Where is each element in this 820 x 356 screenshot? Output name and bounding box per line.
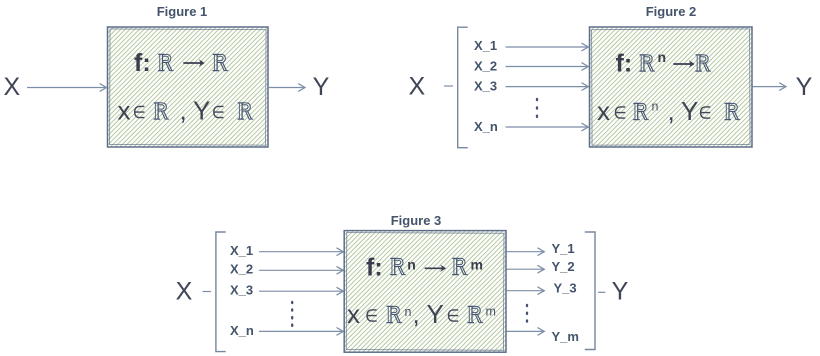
svg-text:X_1: X_1: [474, 38, 497, 53]
svg-text:n: n: [407, 256, 416, 272]
svg-text:m: m: [471, 256, 483, 272]
svg-text:X_n: X_n: [474, 119, 498, 134]
wire X_2 to box (fig3): [259, 266, 343, 274]
function box F2: [590, 27, 753, 147]
svg-text:f:: f:: [616, 50, 633, 78]
wire X_n to box (fig2): [506, 123, 589, 131]
svg-text:x: x: [597, 96, 610, 126]
svg-text:X_2: X_2: [474, 58, 497, 73]
svg-text:X_1: X_1: [230, 243, 253, 258]
F1 formula: x in R , Y in R: [118, 96, 254, 126]
function box F1: [108, 27, 269, 147]
F2 formula: f: R^n -> R: [616, 49, 712, 78]
wire X_1 to box (fig3): [259, 248, 343, 256]
wire X_3 to box (fig2): [506, 83, 589, 91]
vertical ellipsis (fig3 outputs): [526, 304, 528, 323]
svg-text:,: ,: [413, 299, 420, 329]
vertical ellipsis (fig3 inputs): [291, 301, 293, 327]
svg-text:X_3: X_3: [230, 283, 253, 298]
svg-text:X_n: X_n: [230, 323, 254, 338]
wire box to Y_m (fig3): [507, 328, 545, 336]
svg-text:X_2: X_2: [230, 262, 253, 277]
svg-text:Y: Y: [612, 278, 629, 306]
svg-text:,: ,: [180, 96, 187, 126]
svg-text:Figure 2: Figure 2: [646, 4, 697, 19]
svg-text:f:: f:: [366, 254, 383, 282]
wire box to Y_1 (fig3): [507, 248, 545, 256]
wire box to Y (fig1): [269, 84, 305, 92]
input bracket (fig3): [216, 232, 226, 352]
svg-text:n: n: [405, 305, 412, 319]
svg-text:f:: f:: [134, 49, 151, 77]
F1 formula: f: R -> R: [134, 49, 228, 77]
tick X to bracket (fig2): [444, 85, 453, 87]
svg-text:n: n: [658, 49, 667, 65]
svg-text:Y_1: Y_1: [552, 241, 575, 256]
svg-text:x: x: [118, 96, 131, 126]
F3 formula: x in R^n, Y in R^m: [347, 299, 496, 329]
svg-text:n: n: [652, 100, 659, 114]
svg-text:Figure 1: Figure 1: [157, 4, 208, 19]
function box F3: [344, 231, 506, 353]
input bracket (fig2): [458, 27, 468, 148]
svg-text:X: X: [4, 73, 21, 101]
wire box to Y_2 (fig3): [507, 265, 545, 273]
svg-text:X: X: [176, 278, 193, 306]
wire X_1 to box (fig2): [506, 43, 589, 51]
F2 formula: x in R^n , Y in R: [597, 96, 740, 126]
F3 formula: f: R^n -> R^m: [366, 254, 483, 282]
wire box to Y_3 (fig3): [507, 287, 545, 295]
tick X to bracket (fig3): [203, 291, 212, 293]
svg-text:Y_m: Y_m: [552, 329, 579, 344]
svg-text:m: m: [486, 305, 496, 319]
svg-text:X_3: X_3: [474, 79, 497, 94]
svg-text:Y: Y: [427, 299, 444, 329]
svg-text:x: x: [347, 299, 360, 329]
wire box to Y (fig2): [753, 83, 787, 91]
wire X_n to box (fig3): [259, 328, 343, 336]
vertical ellipsis (fig2 inputs): [536, 98, 538, 118]
svg-text:Y: Y: [796, 73, 813, 101]
svg-text:Y: Y: [193, 96, 210, 126]
svg-text:Y_2: Y_2: [552, 259, 575, 274]
svg-text:Y: Y: [313, 73, 330, 101]
output bracket (fig3): [585, 232, 595, 350]
svg-text:Figure 3: Figure 3: [391, 213, 442, 228]
wire X_2 to box (fig2): [506, 63, 589, 71]
svg-text:,: ,: [668, 96, 675, 126]
wire X to box (fig1): [27, 84, 107, 92]
svg-text:Y: Y: [681, 96, 698, 126]
wire X_3 to box (fig3): [259, 287, 343, 295]
tick bracket to Y (fig3): [598, 291, 606, 293]
svg-text:X: X: [408, 73, 425, 101]
svg-text:Y_3: Y_3: [554, 280, 577, 295]
